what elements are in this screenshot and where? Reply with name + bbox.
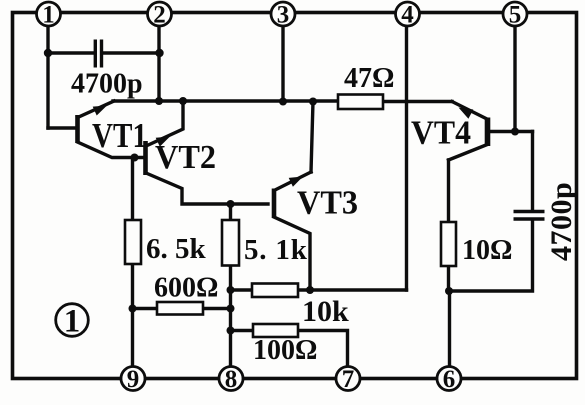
svg-text:3: 3 [277,2,290,29]
wire 10ohm bottom lead [447,266,450,291]
wire VT3 emitter riser [311,102,313,173]
svg-text:600Ω: 600Ω [154,273,218,304]
wire cap C2 top lead [531,132,534,211]
wire pin6 up [448,291,451,372]
svg-text:4700p: 4700p [71,69,143,100]
junction [129,305,137,313]
transistor VT3 [274,177,358,222]
capacitor C1 4700p plates [95,40,101,68]
junction [511,128,519,136]
svg-text:9: 9 [127,366,140,393]
junction [155,49,163,57]
wire pin4 down [405,23,408,290]
resistor 600ohm [157,302,203,315]
wire VT3 emitter lead [275,172,311,190]
svg-text:100Ω: 100Ω [253,335,317,366]
svg-text:6: 6 [443,366,456,393]
wire 10k rail y290 [231,288,407,291]
resistor 47ohm [338,95,383,110]
junction [227,286,235,294]
svg-text:VT4: VT4 [411,115,471,152]
wire VT1 emitter lead [78,101,115,118]
junction [309,98,317,106]
svg-text:47Ω: 47Ω [344,63,394,94]
transistor VT1 [78,106,148,156]
wire 10ohm top lead [447,160,450,222]
junction [279,98,287,106]
resistor 10ohm [441,222,456,266]
wire cap C1 left lead [48,51,93,54]
svg-text:6. 5k: 6. 5k [146,233,207,265]
junction [179,97,187,105]
wire pin8 column 5.1k [229,205,232,372]
junction [227,200,235,208]
figure number circled 1 [56,304,89,340]
wire pin9 column 6.5k [131,158,134,372]
wire VT2 collector to node [146,173,268,204]
junction [227,305,235,313]
pin 7 [336,366,360,393]
svg-text:7: 7 [342,366,355,393]
resistor 5.1k [222,220,239,266]
pin 4 [396,2,420,29]
wire VT1 collector lead [78,142,143,158]
transistor VT4 [411,108,488,152]
junction [445,287,453,295]
svg-text:VT3: VT3 [297,185,358,222]
wire VT2 emitter lead [146,101,183,146]
wire main rail y101 [113,99,338,102]
pin 6 [437,366,461,393]
svg-text:5. 1k: 5. 1k [244,234,308,266]
svg-text:1: 1 [64,304,81,340]
junction [155,97,163,105]
resistor 6.5k [125,220,141,264]
wire pin5 down [513,23,516,132]
wire cap C2 bottom lead [449,221,533,291]
wire VT1 base lead [48,126,74,129]
pin 2 [148,2,172,29]
wire cap C1 right lead [104,51,160,54]
wire pin1 down [46,22,49,128]
svg-text:1: 1 [42,2,55,29]
resistor 10k [252,284,298,298]
wire pin3 down [281,23,284,102]
junction [227,327,235,335]
resistor 100ohm [253,324,298,337]
wire 100ohm rail y330 [231,331,348,373]
pin 5 [503,2,527,29]
svg-text:VT1: VT1 [92,116,147,155]
junction [131,154,139,162]
wire pin2 down [157,22,160,101]
wire rail to VT4 [383,100,452,103]
wire VT3 collector drop [274,217,310,290]
wire 600ohm rail y308 [133,307,232,310]
svg-text:2: 2 [153,2,166,29]
svg-text:5: 5 [509,2,522,29]
junction [306,286,314,294]
transistor VT2 [146,137,217,177]
wire VT4 collector lead [449,145,487,160]
junction [44,49,52,57]
svg-text:8: 8 [225,366,238,393]
pin 8 [219,366,243,393]
capacitor C2 4700p plates [514,212,545,220]
wire VT4 base lead [489,130,533,133]
pin 3 [271,2,295,29]
svg-text:10Ω: 10Ω [462,235,512,266]
wire VT4 emitter lead [452,102,486,119]
pin 9 [121,366,145,393]
svg-text:4700p: 4700p [545,182,578,261]
svg-text:4: 4 [401,2,414,29]
svg-text:10k: 10k [302,295,349,328]
svg-text:VT2: VT2 [155,139,216,176]
pin 1 [37,2,61,29]
